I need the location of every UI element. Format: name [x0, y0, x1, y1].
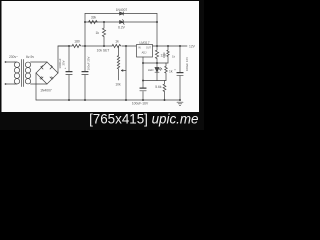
- svg-text:6.2V: 6.2V: [118, 26, 126, 30]
- svg-text:IN: IN: [138, 47, 141, 50]
- vertical wire x104 with resistor R4: [102, 22, 105, 46]
- top rail y13.5: [85, 13, 157, 15]
- vertical wire x157 from top rail to dc rail: [156, 14, 158, 47]
- svg-text:100uF-16V: 100uF-16V: [132, 102, 149, 106]
- wire bridge plus up to dc rail: [58, 46, 68, 73]
- svg-text:10k: 10k: [115, 83, 121, 87]
- transformer T1 core: [21, 60, 23, 87]
- svg-text:230v~: 230v~: [9, 55, 18, 59]
- junction dots: [68, 21, 181, 101]
- capacitor C3 wire: [142, 63, 144, 100]
- black outer background: [0, 0, 204, 130]
- zener D2 on mid rail: [120, 20, 125, 25]
- svg-text:1N4007: 1N4007: [40, 89, 52, 93]
- wire y46 right section: [157, 45, 187, 47]
- svg-text:5.6k: 5.6k: [155, 85, 162, 89]
- IC U1 right pin: [153, 45, 158, 47]
- resistor R2 1k zigzag on dc rail: [112, 44, 136, 47]
- svg-text:33k: 33k: [91, 16, 97, 20]
- diode D1 1N4007 on top rail: [120, 12, 124, 15]
- svg-text:180: 180: [74, 40, 80, 44]
- svg-text:+: +: [174, 68, 176, 72]
- capacitor C1 wire: [68, 46, 70, 100]
- wire input top: [6, 61, 14, 63]
- resistor R6 parallel branch: [165, 63, 168, 81]
- svg-text:1k: 1k: [115, 40, 119, 44]
- potentiometer VR1 body: [117, 46, 119, 80]
- bridge rectifier BR1 diamond: [36, 62, 58, 84]
- terminal input bottom: [5, 83, 7, 85]
- svg-text:1k: 1k: [96, 31, 100, 35]
- svg-text:+: +: [64, 66, 66, 70]
- svg-text:120: 120: [161, 54, 167, 58]
- resistor R7 5.6k: [163, 81, 166, 101]
- capacitor C1 plates: [66, 71, 72, 74]
- transformer T1 secondary winding: [25, 62, 30, 67]
- vertical wire x126: [125, 46, 127, 100]
- svg-text:12V: 12V: [189, 45, 196, 49]
- adj rail y63: [143, 62, 168, 64]
- wire bridge minus down to ground rail: [35, 73, 37, 100]
- svg-text:ADJ: ADJ: [142, 52, 147, 55]
- wire secondary bottom to bridge: [31, 83, 48, 85]
- potentiometer wiper arrow: [121, 70, 126, 72]
- resistor R1 180 zigzag: [72, 44, 112, 47]
- terminal input top: [5, 61, 7, 63]
- svg-text:[765x415] upic.me: [765x415] upic.me: [89, 112, 198, 127]
- dc rail y46 left part: [58, 45, 72, 47]
- capacitor C3 plates: [140, 88, 146, 91]
- IC U1 regulator box: [137, 45, 153, 58]
- white schematic canvas: [2, 1, 200, 112]
- capacitor C4 output wire: [179, 46, 181, 100]
- svg-text:LM317: LM317: [139, 41, 149, 45]
- transformer T1 primary winding: [15, 62, 18, 84]
- svg-text:10k SET: 10k SET: [97, 49, 110, 53]
- wire link y80: [143, 80, 166, 82]
- mid rail y22: [85, 21, 157, 23]
- IC U1 adj pin down: [142, 57, 144, 63]
- ground symbol: [177, 102, 183, 105]
- capacitor C2 plates: [82, 71, 88, 74]
- svg-text:LED: LED: [148, 68, 154, 72]
- wire secondary top to bridge: [31, 61, 48, 63]
- svg-text:100uF 16V: 100uF 16V: [185, 57, 189, 71]
- resistor R3 33k zigzag: [89, 20, 98, 23]
- bridge diode marks: [40, 65, 53, 79]
- LED indicator: [155, 63, 162, 81]
- svg-text:35V: 35V: [62, 60, 66, 65]
- capacitor C5 adj branch: [167, 46, 169, 63]
- capacitor C4 plates: [177, 72, 183, 75]
- wire input bottom: [6, 83, 14, 85]
- svg-text:1N4007: 1N4007: [116, 8, 128, 12]
- resistor R5 between out and adj: [155, 46, 158, 63]
- ground rail y100: [36, 99, 180, 101]
- capacitor C2 wire: [84, 46, 86, 100]
- svg-text:OUT: OUT: [146, 47, 152, 50]
- svg-text:1k: 1k: [169, 70, 173, 74]
- svg-text:6v-9v: 6v-9v: [26, 55, 34, 59]
- vertical wire x85 top: [84, 14, 86, 47]
- svg-text:100uF 25V: 100uF 25V: [87, 57, 91, 71]
